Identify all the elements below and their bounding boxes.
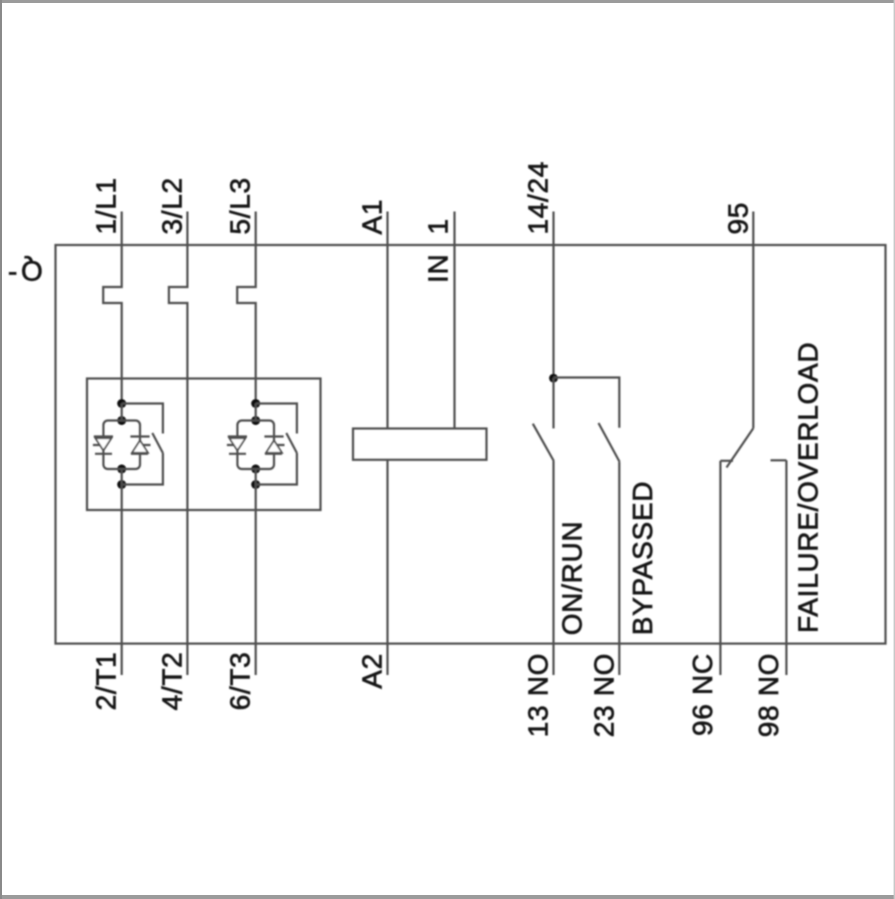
wire T2 lower stub <box>186 644 188 675</box>
wire L3 upper with clamp notch <box>237 245 256 404</box>
wire 96 <box>719 461 721 675</box>
node: L3 bypass tap (junction dot) <box>251 399 260 408</box>
wire 95 <box>752 212 754 429</box>
svg-text:98 NO: 98 NO <box>753 653 784 737</box>
wire 98 <box>785 460 787 675</box>
svg-text:A1: A1 <box>357 199 388 235</box>
node: L3 scr loop bottom (junction dot) <box>251 465 260 474</box>
node 14/24 branch (junction dot) <box>549 374 558 383</box>
main device box <box>56 245 886 644</box>
wire A2 <box>386 460 388 675</box>
svg-text:95: 95 <box>722 202 753 235</box>
svg-text:BYPASSED: BYPASSED <box>627 481 658 635</box>
contact 96 NC tick <box>720 460 733 462</box>
svg-text:5/L3: 5/L3 <box>225 177 256 234</box>
node: L3 scr loop top (junction dot) <box>251 416 260 425</box>
wire T1 lower <box>121 485 123 676</box>
svg-text:1/L1: 1/L1 <box>91 177 122 234</box>
wire L2 top stub <box>186 212 188 246</box>
svg-text:IN: IN <box>423 254 454 283</box>
thyristor V4 (L3 reverse) <box>264 437 284 454</box>
wire L1 between taps <box>121 404 123 485</box>
scr loop L1 <box>103 421 140 470</box>
svg-text:ON/RUN: ON/RUN <box>557 521 588 636</box>
wire T3 lower <box>255 485 257 676</box>
svg-text:2/T1: 2/T1 <box>91 652 122 711</box>
coil A1-A2 <box>353 429 487 460</box>
wire L3 top stub <box>255 212 257 246</box>
svg-text:Q: Q <box>20 256 42 287</box>
contact 13-14 ON/RUN (NO) blade <box>533 424 554 461</box>
node: L1 scr loop top (junction dot) <box>117 416 126 425</box>
wire 13 upper <box>552 378 554 428</box>
svg-text:13 NO: 13 NO <box>523 653 554 737</box>
contact 23-24 BYPASSED (NO) blade <box>599 423 620 462</box>
thyristor block outline <box>87 379 321 511</box>
contact 98 NO tick <box>771 459 787 461</box>
wire L2 through with clamp notch <box>169 245 188 644</box>
wire L1 upper with clamp notch <box>103 245 122 404</box>
svg-text:6/T3: 6/T3 <box>225 652 256 711</box>
thyristor V1 (L1 forward) <box>93 437 113 454</box>
thyristor V2 (L1 reverse) <box>130 437 150 454</box>
wire 23 lower <box>618 462 620 675</box>
bypass contact K1 (L1) <box>122 404 163 485</box>
wire A1 <box>386 212 388 429</box>
svg-text:14/24: 14/24 <box>523 161 554 235</box>
svg-text:3/L2: 3/L2 <box>156 177 187 234</box>
svg-text:23 NO: 23 NO <box>588 653 619 737</box>
svg-text:96 NC: 96 NC <box>687 653 718 736</box>
svg-text:4/T2: 4/T2 <box>156 652 187 711</box>
wire 14/24 <box>552 212 554 379</box>
svg-text:FAILURE/OVERLOAD: FAILURE/OVERLOAD <box>793 342 824 633</box>
changeover contact 95-96-98 blade <box>727 428 754 467</box>
bypass contact K2 (L3) <box>256 404 297 485</box>
node: L1 bypass return (junction dot) <box>117 480 126 489</box>
svg-text:1: 1 <box>423 218 454 234</box>
thyristor V3 (L3 forward) <box>227 437 247 454</box>
node: L1 scr loop bottom (junction dot) <box>117 465 126 474</box>
wire IN <box>453 212 455 429</box>
svg-text:A2: A2 <box>357 653 388 689</box>
wire 13 lower <box>552 461 554 675</box>
wire L1 top stub <box>121 212 123 246</box>
scr loop L3 <box>237 421 274 470</box>
wire L3 between taps <box>255 404 257 485</box>
node: L3 bypass return (junction dot) <box>251 480 260 489</box>
node: L1 bypass tap (junction dot) <box>117 399 126 408</box>
svg-text:-: - <box>8 256 18 287</box>
wire branch to 23 <box>554 378 620 428</box>
